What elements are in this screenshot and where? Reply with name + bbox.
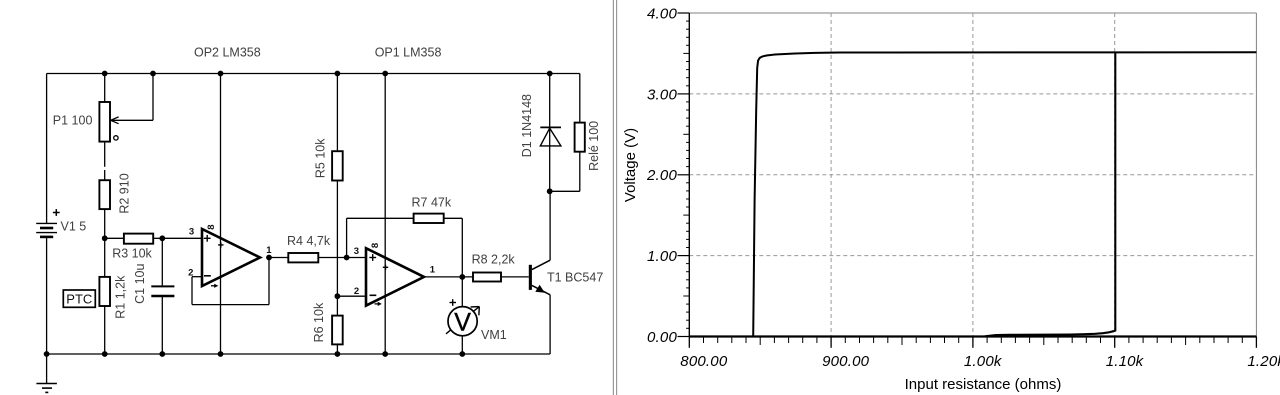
wire node C to OP1 pin3 [347,257,366,259]
resistor R6 [332,316,343,345]
node A [102,235,108,241]
x axis line [689,335,1256,337]
wire bottom rail [47,353,550,355]
wire R6 top lead [336,296,338,315]
label OP1 LM358 [375,46,442,60]
wire R6 to rail [336,344,338,354]
wire OP1 out [424,276,473,278]
label C1 10u [133,264,147,304]
wire node B to OP2 pin3 [162,237,202,239]
OP2 pin 8 label [206,224,217,229]
resistor R1 (PTC) [99,277,110,306]
svg-text:3: 3 [354,246,359,257]
label R2 910 [118,173,132,213]
svg-text:0.00: 0.00 [647,329,677,346]
wire node A to R1 [104,238,106,277]
svg-text:C1 10u: C1 10u [133,264,147,304]
transistor T1 [529,260,550,295]
wire P1 to R2 [104,142,106,181]
PTC box [63,290,95,307]
svg-text:1: 1 [266,245,272,256]
voltmeter VM1 [446,299,479,336]
label R6 10k [312,302,326,342]
OP1 pin 3 label [354,246,359,257]
plot top border [689,12,1256,14]
svg-text:R8 2,2k: R8 2,2k [472,253,516,267]
wire OP2 out to R4 [269,257,288,259]
wire left rail lower [46,237,48,354]
svg-text:1.10k: 1.10k [1106,353,1145,370]
wire T1 emitter [549,295,551,354]
svg-text:R5 10k: R5 10k [314,138,328,178]
svg-text:R1 1,2k: R1 1,2k [113,275,127,319]
wire C1 top lead [161,238,163,285]
label R3 10k [112,247,152,261]
svg-text:R3 10k: R3 10k [112,247,152,261]
wire VM1 bottom lead [461,336,463,354]
wire top rail [47,73,580,75]
svg-text:R2 910: R2 910 [118,173,132,213]
svg-text:D1 1N4148: D1 1N4148 [520,94,534,157]
node R5 rail [335,71,341,77]
svg-text:T1 BC547: T1 BC547 [547,271,603,285]
resistor R3 [124,234,153,244]
wire OP2 pin2 lead [192,276,202,278]
svg-text:V: V [454,308,471,336]
label R1 1,2k [113,275,127,319]
wire OP2 feedback [192,258,269,305]
svg-text:Relé 100: Relé 100 [587,121,601,171]
label OP2 LM358 [194,46,261,60]
resistor R4 [288,253,318,262]
resistor R7 [414,214,444,223]
node R1-rail [102,351,108,357]
OP2 pin 3 label [189,226,194,237]
node D1 top [547,71,553,77]
wire R7 branch [347,218,414,257]
svg-text:P1 100: P1 100 [53,113,93,127]
label R7 47k [412,195,452,209]
node ground rail [44,351,50,357]
wire OP1 power line [384,74,386,355]
node VM1 rail [459,351,465,357]
svg-text:2.00: 2.00 [646,167,677,184]
resistor R5 [332,151,343,180]
wire C1 to bottom rail [161,297,163,354]
wire left rail upper [46,74,48,224]
trace rising sweep [753,52,1256,336]
x minor ticks [704,337,1243,346]
op-amp OP1 [366,248,424,306]
wire D1 lead [549,74,551,192]
wire relay bottom [550,152,580,192]
label R8 2,2k [472,253,516,267]
label T1 BC547 [547,271,603,285]
wire T1 collector [549,191,551,260]
node D1 bottom [547,188,553,194]
OP1 pin 1 label [430,265,436,276]
splitter bar [613,0,616,395]
svg-text:VM1: VM1 [481,328,507,342]
node C [344,255,350,261]
label R5 10k [314,138,328,178]
svg-text:1: 1 [430,265,436,276]
plot right border [1255,13,1257,337]
resistor R2 [99,180,110,209]
svg-text:V1 5: V1 5 [61,220,87,234]
svg-text:PTC: PTC [66,291,92,306]
node OP1 out / R7 [459,274,465,280]
svg-text:1.00k: 1.00k [964,353,1003,370]
node C1-rail [159,351,165,357]
relay coil Rele 100 [575,123,585,152]
wire R8 to T1 base [501,276,529,278]
wire P1 top lead [104,74,106,103]
svg-text:OP2 LM358: OP2 LM358 [194,46,261,60]
label Rele 100 [587,121,601,171]
wire R5 to node D [336,181,338,297]
ground [36,354,57,392]
svg-text:2: 2 [354,286,359,297]
wire node A to R3 [105,237,124,239]
svg-text:3.00: 3.00 [647,86,677,103]
node P1 wiper rail [150,71,156,77]
svg-text:800.00: 800.00 [680,353,728,370]
svg-text:4.00: 4.00 [647,5,677,22]
wire node D to OP1 pin2 [337,295,366,297]
node OP2 output [266,255,272,261]
node OP2 power top [218,71,224,77]
label VM1 [481,328,507,342]
node OP2 power bottom [218,351,224,357]
label D1 1N4148 [520,94,534,157]
wire R5 top lead [336,74,338,152]
op-amp OP2 [202,229,260,288]
y tick labels [646,5,677,346]
node B [159,235,165,241]
gridlines horizontal [689,94,1256,256]
label P1 100 [53,113,93,127]
svg-text:8: 8 [370,243,381,248]
svg-text:Voltage (V): Voltage (V) [622,128,639,202]
label R4 4,7k [287,234,331,248]
svg-text:900.00: 900.00 [822,353,870,370]
OP2 pin 1 label [266,245,272,256]
svg-text:R4 4,7k: R4 4,7k [287,234,331,248]
potentiometer P1 [99,74,153,142]
trace falling sweep [985,52,1115,336]
wire R7 to output [444,218,463,277]
battery V1 [36,209,60,237]
svg-text:1.20k: 1.20k [1247,353,1280,370]
node D [335,293,341,299]
svg-text:R6 10k: R6 10k [312,302,326,342]
OP1 pin 8 label [370,243,381,248]
wire R3 to node B [153,237,162,239]
wire R2 to node A [104,209,106,238]
node OP1 power bottom [382,351,388,357]
svg-text:8: 8 [206,224,217,229]
resistor R8 [473,273,501,282]
gridlines vertical [831,13,1115,337]
label V1 5 [61,220,87,234]
wire relay branch top [579,74,581,123]
node R6 rail [335,351,341,357]
y major ticks [678,13,690,337]
OP2 pin 2 label [188,268,193,279]
svg-text:1.00: 1.00 [647,248,677,265]
svg-text:R7 47k: R7 47k [412,195,452,209]
x tick labels [680,353,1280,370]
x major ticks [689,337,1256,348]
wire R1 to bottom rail [104,306,106,354]
OP1 pin 2 label [354,286,359,297]
wire R4 to node C [318,257,346,259]
diode D1 [540,127,561,145]
y axis line [688,13,690,337]
wire OP2 power line [220,74,222,355]
capacitor C1 [151,286,174,296]
svg-text:3: 3 [189,226,194,237]
node P1 rail [102,71,108,77]
y minor ticks [683,21,689,328]
wire VM1 top lead [461,277,463,307]
svg-text:OP1 LM358: OP1 LM358 [375,46,442,60]
node OP1 power top [382,71,388,77]
svg-text:Input resistance (ohms): Input resistance (ohms) [905,376,1062,393]
